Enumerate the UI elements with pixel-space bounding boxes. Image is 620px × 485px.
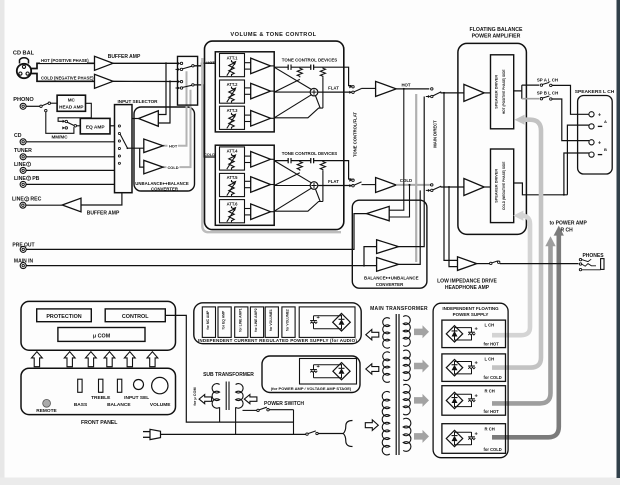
- winding main sec-right 1: [403, 316, 410, 347]
- svg-text:for HOT: for HOT: [484, 341, 500, 346]
- node cold out: [430, 184, 432, 186]
- op-amp unbal input (left): [139, 111, 159, 127]
- svg-text:ATT.5: ATT.5: [227, 175, 239, 180]
- label COLD (NEGATIVE PHASE): [40, 75, 91, 80]
- wire amp6 out: [271, 211, 275, 213]
- block audio psu rectifier: [299, 307, 355, 338]
- svg-text:A: A: [604, 119, 607, 124]
- wire main in: [26, 247, 376, 266]
- wire hot to VT box: [194, 63, 215, 66]
- diode bridge fpsu 4: [446, 430, 462, 446]
- switch SP B: [540, 98, 542, 100]
- wire main-direct hot out: [441, 92, 464, 94]
- node summing ch2: [310, 182, 318, 190]
- wire cord to brace: [318, 433, 343, 435]
- svg-text:for EQ AMP: for EQ AMP: [222, 310, 226, 329]
- label conv HOT: [168, 144, 179, 149]
- op-amp speaker cold: [464, 179, 484, 196]
- wire gray conv hot to switch: [163, 71, 187, 146]
- attenuator ATT.1 pot symbol: [229, 60, 234, 76]
- block speaker driver HOT: [491, 55, 514, 129]
- svg-text:for LINE AMP1: for LINE AMP1: [238, 308, 242, 332]
- wire cold preout drop: [389, 185, 409, 217]
- wire sp-b branch gray: [522, 98, 539, 100]
- arrow gray to psu2: [414, 360, 429, 373]
- block voltage-amp PSU: [262, 356, 360, 393]
- svg-text:B: B: [604, 147, 607, 152]
- wire control to power switch: [165, 315, 293, 422]
- wire LINE2 PB to selector: [26, 183, 114, 185]
- terminal speaker B-: [589, 152, 594, 157]
- svg-text:MAIN TRANSFORMER: MAIN TRANSFORMER: [370, 306, 428, 312]
- wire resistor2 drop ch2: [322, 171, 324, 202]
- svg-text:HOT: HOT: [401, 82, 410, 87]
- wire spamp cold: [484, 186, 490, 188]
- arrow front-panel 5: [124, 352, 135, 367]
- arrow front-panel 6: [147, 352, 158, 367]
- block volume-tone shadow: [202, 58, 341, 232]
- block MC HEAD AMP: [57, 95, 85, 111]
- svg-text:LINE: LINE: [14, 162, 26, 168]
- arrow front-panel 1: [32, 352, 43, 367]
- wire mainin hot up: [399, 97, 425, 247]
- winding main sec-left 1: [383, 318, 390, 349]
- op-amp line HOT: [376, 81, 397, 96]
- svg-text:FLAT: FLAT: [328, 86, 339, 91]
- diode bridge va psu: [333, 363, 350, 380]
- block floating psu 3: [442, 386, 506, 416]
- op-amp headphone: [458, 257, 477, 271]
- wire audio psu rails: [314, 315, 342, 317]
- diode bridge fpsu 1: [446, 326, 462, 342]
- svg-text:BALANCE: BALANCE: [168, 181, 189, 186]
- capacitor fpsu 1: [471, 327, 473, 332]
- svg-text:CONTROL: CONTROL: [122, 314, 149, 320]
- block audio psu cell for LINE AMP2: [250, 307, 263, 338]
- core main transformer: [395, 314, 397, 455]
- label HOT (POSITIVE PHASE): [40, 58, 87, 63]
- svg-text:SPEAKER DRIVER: SPEAKER DRIVER: [494, 75, 498, 109]
- wire unbal in hot: [158, 63, 166, 114]
- wire cold to VT box: [194, 85, 215, 157]
- scan page right dark edge: [617, 0, 620, 478]
- capacitor tone2 ch1: [310, 65, 312, 70]
- control VOLUME knob: [152, 377, 168, 393]
- svg-text:CD: CD: [14, 133, 22, 139]
- wire fpsu rails 4: [455, 431, 472, 433]
- svg-text:FRONT PANEL: FRONT PANEL: [81, 420, 118, 426]
- winding main sec-right 4: [403, 418, 411, 451]
- terminal speaker B+: [589, 140, 594, 145]
- switch flat upper ch1: [352, 86, 354, 88]
- control INPUT SEL knob: [134, 380, 144, 390]
- node hp tap hot: [443, 92, 445, 94]
- svg-text:REC: REC: [30, 197, 41, 203]
- svg-text:INDEPENDENT CURRENT REGULATED: INDEPENDENT CURRENT REGULATED POWER SUPP…: [198, 338, 357, 343]
- capacitor tone1 ch2: [287, 158, 289, 163]
- svg-text:PROTECTION: PROTECTION: [46, 314, 81, 320]
- winding main primary: [382, 391, 390, 454]
- attenuator ATT.2 pot symbol: [229, 87, 234, 103]
- wire to phones: [500, 263, 579, 265]
- wire spamp hot: [484, 92, 490, 94]
- wire cold to minusA: [567, 125, 589, 195]
- wire cold to minusB: [564, 153, 589, 195]
- op-amp volume ch1 1: [251, 58, 271, 74]
- scan page bottom edge strip: [0, 478, 620, 485]
- control slider treble: [99, 379, 103, 392]
- op-amp volume ch1 3: [251, 111, 271, 127]
- svg-text:HOT: HOT: [169, 144, 178, 149]
- wire va psu rails: [314, 364, 342, 366]
- arrow sub ac in: [244, 395, 257, 404]
- wire diag mid-res1 ch1: [274, 79, 300, 92]
- control slider balance: [117, 379, 121, 392]
- connector LINE2 REC: [20, 202, 26, 208]
- svg-text:MAIN DIRECT: MAIN DIRECT: [432, 120, 437, 148]
- wire LINE1 to selector: [26, 169, 114, 171]
- block front panel: [21, 368, 176, 414]
- switch sel-cold lever: [183, 85, 192, 87]
- svg-text:INPUT SELECTOR: INPUT SELECTOR: [118, 99, 159, 104]
- wire diag amp3-sum ch2: [274, 188, 311, 211]
- wire bottom tap ch2: [274, 202, 323, 212]
- connector LINE2 PB: [20, 181, 26, 187]
- node buffer hot junction: [165, 62, 167, 64]
- wire diag mid-res1 ch2: [274, 173, 300, 186]
- diode bridge fpsu 2: [446, 359, 462, 375]
- wire amp5 out: [271, 184, 275, 186]
- svg-text:MM/MC: MM/MC: [51, 134, 68, 139]
- capacitor tone1 ch1: [287, 65, 289, 70]
- wire diag amp1-sum ch2: [274, 161, 311, 183]
- block control outer: [21, 301, 176, 350]
- wire phono to switch: [26, 105, 40, 107]
- wire hot preout drop: [389, 89, 404, 210]
- block floating psu 1: [442, 320, 506, 348]
- svg-text:for LINE AMP2: for LINE AMP2: [254, 308, 258, 332]
- diode bridge fpsu 3: [446, 392, 462, 408]
- svg-text:ATT.6: ATT.6: [227, 201, 239, 206]
- switch flat lower ch1: [352, 91, 354, 93]
- wire att3 to amp: [245, 114, 251, 116]
- svg-text:TONE CONTROL/FLAT: TONE CONTROL/FLAT: [353, 112, 358, 157]
- switch MM/MC lever: [67, 122, 74, 125]
- switch flat upper ch2: [352, 179, 354, 181]
- wire att4 to amp: [245, 155, 251, 157]
- wire amp4 out: [271, 158, 275, 160]
- connector AC plug: [143, 431, 150, 433]
- svg-text:2: 2: [28, 177, 30, 181]
- capacitor fpsu 3: [471, 394, 473, 399]
- switch MM/MC lower contact: [65, 127, 67, 129]
- block audio psu cell for VOLUME1: [265, 307, 278, 338]
- op-amp buffer cold: [95, 74, 114, 88]
- block audio PSU: [194, 303, 361, 344]
- block va psu rectifier: [300, 359, 357, 385]
- attenuator ATT.4 pot symbol: [229, 154, 234, 170]
- svg-text:MC: MC: [68, 98, 76, 103]
- capacitor fpsu 4: [471, 432, 473, 437]
- svg-text:for VOLUME1: for VOLUME1: [269, 309, 273, 331]
- svg-text:HOT (POSITIVE PHASE) SIDE: HOT (POSITIVE PHASE) SIDE: [502, 69, 506, 114]
- svg-text:COLD: COLD: [168, 165, 179, 170]
- svg-text:ATT.2: ATT.2: [227, 82, 239, 87]
- winding main sec-left 2: [383, 352, 390, 383]
- switch main-direct cold c1: [431, 184, 433, 186]
- wire buffer hot out: [113, 62, 179, 64]
- switch sel-hot common: [192, 65, 194, 67]
- attenuator ATT.6 pot symbol: [229, 206, 234, 222]
- wire sp a out: [552, 85, 589, 114]
- block audio psu cell for VOLUME2: [282, 307, 295, 338]
- svg-text:+: +: [598, 112, 601, 118]
- svg-text:μ COM: μ COM: [93, 334, 111, 340]
- svg-text:SP B L CH: SP B L CH: [537, 91, 559, 96]
- attenuator ATT.3 box: [220, 106, 245, 129]
- svg-text:PB: PB: [32, 176, 39, 182]
- block VOLUME & TONE CONTROL: [205, 41, 344, 230]
- connector TUNER: [20, 154, 26, 160]
- svg-text:for COLD: for COLD: [484, 447, 502, 452]
- power route L-ch hot (light): [492, 120, 541, 368]
- wire gray conv cold to switch: [163, 90, 191, 167]
- wire tone top ch1: [274, 67, 351, 85]
- op-amp speaker hot: [464, 84, 484, 101]
- svg-text:BASS: BASS: [74, 402, 88, 408]
- block audio psu cell for LINE AMP1: [235, 307, 248, 338]
- svg-text:HEAD AMP: HEAD AMP: [59, 105, 83, 110]
- wire att6 to amp: [245, 208, 251, 210]
- svg-text:(for POWER AMP / VOLTAGE AMP S: (for POWER AMP / VOLTAGE AMP STAGE): [271, 386, 352, 391]
- power route R-ch hot (medium): [492, 245, 551, 403]
- wire TUNER to selector: [26, 156, 114, 158]
- brace transformer feed: [343, 421, 352, 447]
- block floating psu 2: [442, 354, 506, 382]
- op-amp volume ch2 1: [251, 152, 271, 168]
- wire mainin cold up: [399, 190, 421, 264]
- wire CD BAL cold: [31, 74, 94, 82]
- op-amp line COLD: [376, 178, 397, 193]
- svg-text:BUFFER AMP: BUFFER AMP: [108, 54, 141, 60]
- arrow psu feed (from transformer): [366, 330, 379, 340]
- switch sel-hot contact 1: [180, 62, 182, 64]
- svg-text:SPEAKER DRIVER: SPEAKER DRIVER: [494, 169, 498, 203]
- switch selector lever: [120, 134, 127, 147]
- op-amp buffer hot: [95, 56, 114, 70]
- svg-text:CD BAL: CD BAL: [13, 51, 35, 57]
- arrow gray to psu1: [414, 325, 429, 338]
- switch sel-cold contact 2: [180, 87, 182, 89]
- switch main-direct cold c2: [431, 189, 433, 191]
- svg-text:R CH: R CH: [485, 388, 495, 393]
- capacitor audio psu: [313, 316, 315, 321]
- svg-text:R CH: R CH: [485, 426, 495, 431]
- attenuator ATT.4 box: [220, 147, 245, 170]
- switch main-direct cold lever: [433, 186, 441, 190]
- switch MC contact: [48, 102, 50, 104]
- wire amp1 out: [271, 65, 275, 67]
- block channel rect ch2: [215, 145, 274, 225]
- svg-text:BALANCE: BALANCE: [364, 275, 386, 280]
- switch sel-hot contact 2: [180, 68, 182, 70]
- svg-text:LOW IMPEDANCE DRIVE: LOW IMPEDANCE DRIVE: [437, 278, 497, 284]
- svg-text:1: 1: [28, 163, 30, 167]
- capacitor tone2 ch2: [310, 158, 312, 163]
- wire hp in hot: [444, 93, 458, 261]
- svg-text:VOLUME & TONE CONTROL: VOLUME & TONE CONTROL: [230, 32, 316, 38]
- svg-text:VOLUME: VOLUME: [150, 402, 171, 408]
- node buffer cold junction: [169, 80, 171, 82]
- block audio psu cell for EQ AMP: [218, 307, 231, 338]
- svg-text:for μ COM: for μ COM: [193, 387, 197, 405]
- wire pre out: [26, 214, 366, 250]
- switch MM/MC upper contact: [65, 120, 67, 122]
- wire amp3 out: [271, 117, 275, 119]
- attenuator ATT.5 box: [220, 173, 245, 196]
- wire CD BAL hot: [31, 63, 94, 68]
- switch SP A: [540, 84, 542, 86]
- block EQ AMP: [80, 118, 110, 133]
- wire hp in cold: [449, 187, 458, 267]
- wire sub right drop: [235, 407, 237, 434]
- wire selector common out: [127, 147, 143, 149]
- resistor tone2 ch1: [320, 67, 325, 77]
- wire LINE2 REC: [26, 204, 62, 206]
- svg-text:PHONES: PHONES: [582, 253, 604, 259]
- svg-text:INDEPENDENT FLOATING: INDEPENDENT FLOATING: [442, 306, 499, 311]
- svg-text:CONVERTER: CONVERTER: [151, 187, 179, 192]
- switch MM contact: [45, 109, 47, 111]
- connector PHONO: [20, 103, 26, 109]
- switch hp out: [477, 263, 490, 265]
- wire att2 to amp: [245, 87, 251, 89]
- wire junction to sum ch1: [315, 96, 320, 109]
- attenuator ATT.1 box: [220, 54, 245, 77]
- switch sel-cold contact 1: [180, 80, 182, 82]
- attenuator ATT.6 box: [220, 200, 245, 223]
- node summing ch1: [310, 88, 318, 96]
- svg-text:LINE: LINE: [14, 176, 26, 182]
- resistor tone1 ch2: [297, 161, 302, 171]
- svg-text:UNBALANCE: UNBALANCE: [135, 181, 162, 186]
- wire CD to selector: [26, 141, 114, 143]
- svg-text:ATT.3: ATT.3: [227, 108, 239, 113]
- control slider bass: [78, 379, 82, 392]
- block audio psu cell for MC AMP: [202, 307, 215, 338]
- wire tone top ch2: [274, 161, 351, 179]
- block BALANCE-UNBALANCE CONVERTER: [352, 200, 427, 288]
- svg-text:HEADPHONE AMP: HEADPHONE AMP: [445, 285, 490, 291]
- winding main sec-right 3: [403, 384, 410, 415]
- op-amp rec buffer: [62, 198, 81, 212]
- block u-COM: [58, 328, 145, 342]
- svg-text:POWER AMPLIFIER: POWER AMPLIFIER: [472, 33, 521, 39]
- svg-text:for VOLUME2: for VOLUME2: [286, 309, 290, 331]
- svg-text:COLD (NEGATIVE PHASE) SIDE: COLD (NEGATIVE PHASE) SIDE: [502, 162, 506, 210]
- svg-text:HOT (POSITIVE PHASE): HOT (POSITIVE PHASE): [41, 58, 89, 63]
- op-amp mainin HOT: [377, 240, 399, 254]
- svg-text:BUFFER AMP: BUFFER AMP: [87, 211, 120, 217]
- svg-text:TREBLE: TREBLE: [91, 395, 111, 401]
- block floating PSU outer: [433, 303, 508, 458]
- wire EQ out: [110, 125, 115, 127]
- resistor tone1 ch1: [297, 67, 302, 77]
- wire buffer cold out: [113, 80, 179, 82]
- switch sel-cold common: [192, 84, 194, 86]
- power route R-ch cold (dark): [492, 235, 559, 438]
- switch main-direct hot lever: [433, 92, 441, 96]
- node cold preout tap: [409, 184, 411, 186]
- svg-text:COLD: COLD: [400, 178, 412, 183]
- wire unbal out to selector: [132, 118, 139, 120]
- svg-text:COLD: COLD: [204, 152, 215, 157]
- arrow gray to psu4: [414, 430, 429, 443]
- wire bottom tap ch1: [274, 108, 323, 118]
- arrow va psu feed: [366, 364, 379, 374]
- wire flat ch1: [318, 91, 352, 93]
- wire gray mid vertical: [415, 94, 417, 262]
- connector PRE OUT: [20, 246, 26, 252]
- svg-text:L CH: L CH: [485, 357, 495, 362]
- arrow gray to psu3: [414, 394, 429, 407]
- op-amp volume ch2 2: [251, 177, 271, 193]
- attenuator ATT.5 pot symbol: [229, 180, 234, 196]
- block input selector: [115, 105, 133, 193]
- block UNBALANCE-BALANCE CONVERTER: [134, 107, 195, 191]
- block channel rect ch1: [215, 52, 274, 132]
- capacitor va psu: [313, 365, 315, 370]
- control REMOTE led: [43, 399, 51, 407]
- svg-text:2: 2: [26, 197, 28, 201]
- svg-text:R CH: R CH: [561, 227, 574, 233]
- svg-text:FLAT: FLAT: [328, 179, 339, 184]
- op-amp converter HOT: [144, 139, 163, 153]
- connector MAIN IN: [20, 263, 26, 269]
- op-amp bal-unbal (left): [367, 206, 390, 220]
- switch MM/MC common: [74, 125, 76, 127]
- diode bridge audio psu: [333, 313, 351, 331]
- svg-text:POWER SWITCH: POWER SWITCH: [264, 401, 304, 407]
- svg-text:COLD (NEGATIVE PHASE): COLD (NEGATIVE PHASE): [41, 76, 94, 81]
- switch MC/MM input common: [40, 105, 42, 107]
- svg-text:UNBALANCE: UNBALANCE: [391, 275, 419, 280]
- block CONTROL: [105, 309, 165, 322]
- switch power lower: [306, 433, 308, 435]
- svg-text:PHONO: PHONO: [13, 97, 34, 103]
- label conv COLD: [167, 165, 180, 170]
- svg-text:L CH: L CH: [485, 323, 495, 328]
- attenuator ATT.2 box: [220, 80, 245, 103]
- power route L-ch cold (lightest): [492, 216, 530, 336]
- svg-text:to POWER AMP: to POWER AMP: [550, 220, 588, 226]
- block floating balance power amp: [458, 43, 527, 234]
- node hot preout tap: [403, 88, 405, 90]
- switch selector contacts: [118, 125, 120, 127]
- winding sub secondary right: [236, 384, 243, 409]
- wire lineamp cold out gray: [396, 184, 429, 186]
- switch main-direct hot c2: [431, 95, 433, 97]
- connector CD BAL (XLR): [20, 58, 29, 64]
- wire AC cord: [161, 433, 306, 435]
- switch flat lower ch2: [352, 185, 354, 187]
- svg-text:INPUT SEL: INPUT SEL: [124, 395, 149, 401]
- svg-text:for MC AMP: for MC AMP: [206, 310, 210, 330]
- block SPEAKERS L CH: [578, 96, 613, 175]
- svg-text:+: +: [598, 140, 601, 146]
- svg-text:for HOT: for HOT: [484, 409, 500, 414]
- svg-text:for COLD: for COLD: [484, 375, 502, 380]
